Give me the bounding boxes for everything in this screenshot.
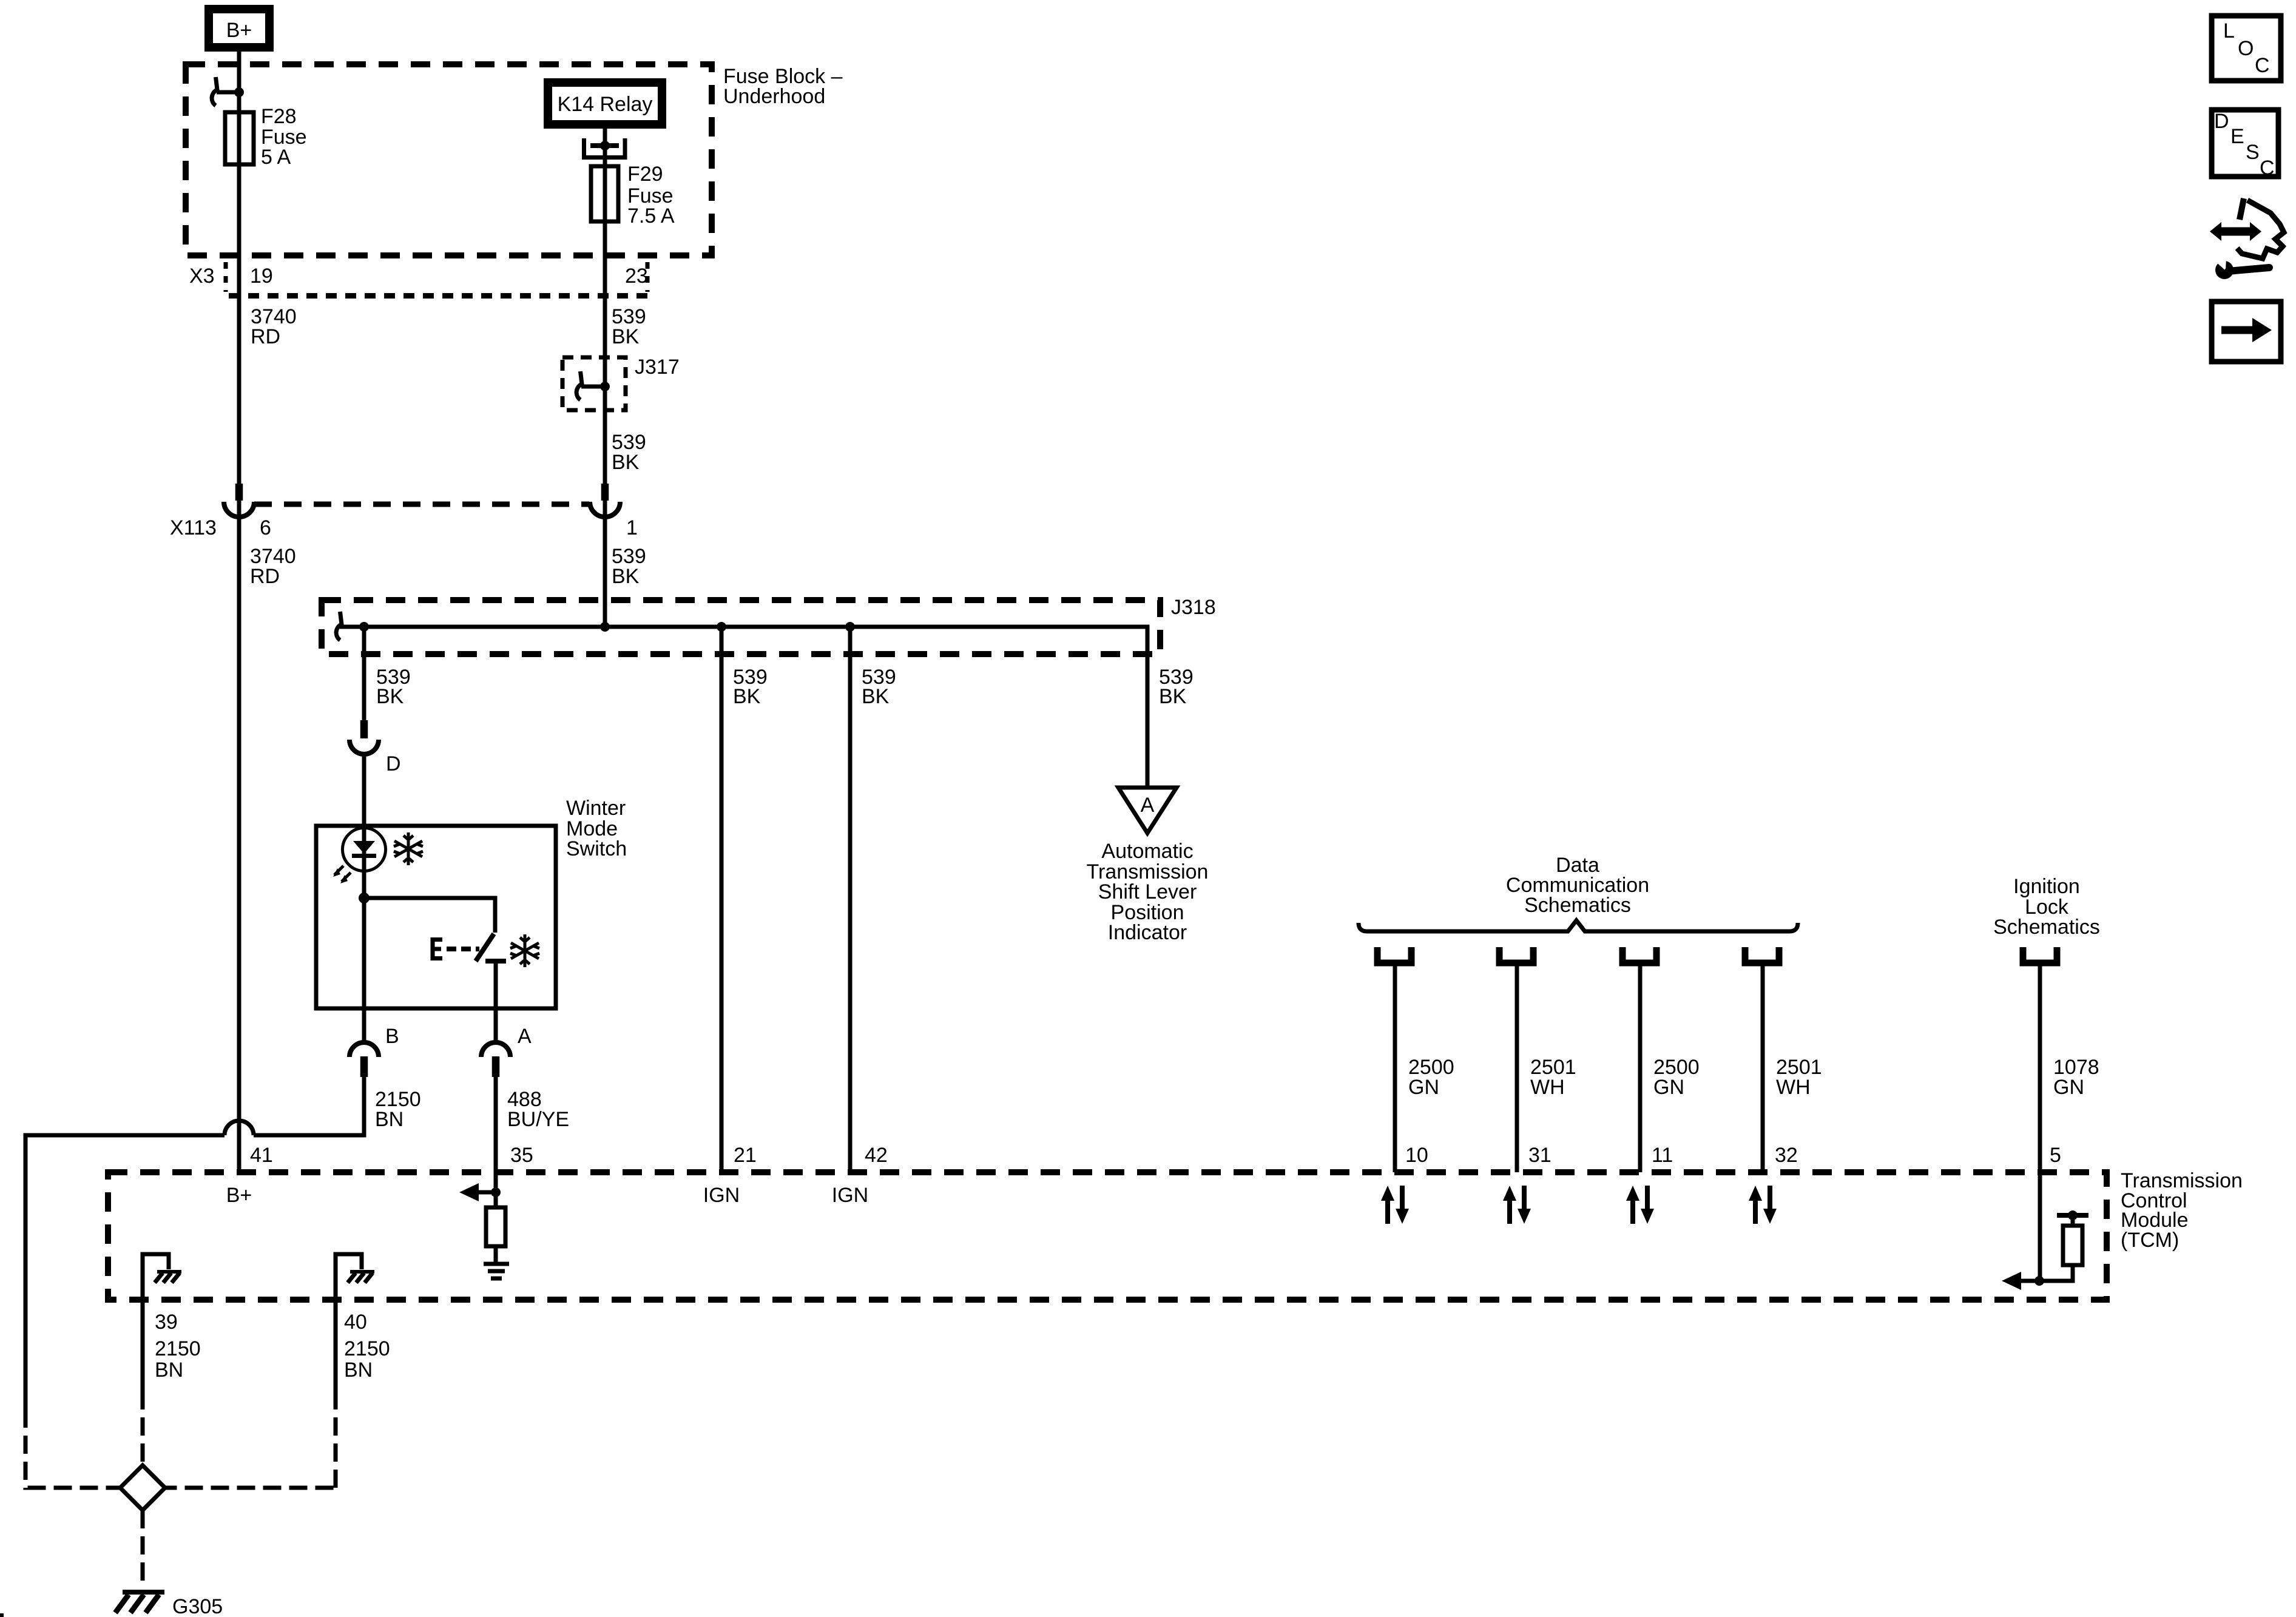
svg-text:21: 21 bbox=[734, 1144, 757, 1167]
svg-text:40: 40 bbox=[344, 1311, 367, 1334]
svg-text:Switch: Switch bbox=[566, 837, 627, 860]
svg-text:Underhood: Underhood bbox=[723, 85, 825, 108]
svg-text:19: 19 bbox=[250, 265, 273, 288]
svg-text:G305: G305 bbox=[172, 1595, 223, 1617]
svg-text:WH: WH bbox=[1530, 1076, 1565, 1099]
svg-text:BN: BN bbox=[155, 1359, 183, 1382]
svg-text:GN: GN bbox=[1653, 1076, 1684, 1099]
svg-text:Schematics: Schematics bbox=[1524, 894, 1631, 917]
svg-text:10: 10 bbox=[1405, 1144, 1428, 1167]
svg-text:2150: 2150 bbox=[344, 1337, 390, 1360]
svg-text:X3: X3 bbox=[189, 265, 215, 288]
svg-text:Winter: Winter bbox=[566, 797, 626, 820]
svg-text:A: A bbox=[518, 1025, 532, 1048]
svg-text:BN: BN bbox=[344, 1359, 373, 1382]
svg-text:Indicator: Indicator bbox=[1108, 921, 1187, 944]
svg-text:1: 1 bbox=[626, 516, 638, 539]
svg-text:GN: GN bbox=[2053, 1076, 2084, 1099]
svg-text:Shift Lever: Shift Lever bbox=[1098, 880, 1197, 903]
svg-text:11: 11 bbox=[1652, 1144, 1673, 1167]
svg-text:31: 31 bbox=[1528, 1144, 1551, 1167]
svg-text:GN: GN bbox=[1408, 1076, 1439, 1099]
svg-text:42: 42 bbox=[865, 1144, 888, 1167]
svg-text:23: 23 bbox=[625, 265, 648, 288]
svg-text:F29: F29 bbox=[627, 163, 663, 186]
svg-text:BU/YE: BU/YE bbox=[507, 1108, 569, 1131]
svg-text:D: D bbox=[2214, 110, 2229, 133]
svg-text:WH: WH bbox=[1776, 1076, 1811, 1099]
svg-text:5: 5 bbox=[2050, 1144, 2061, 1167]
svg-text:BK: BK bbox=[376, 685, 404, 708]
svg-text:35: 35 bbox=[510, 1144, 533, 1167]
svg-text:5 A: 5 A bbox=[261, 146, 291, 169]
svg-text:F28: F28 bbox=[261, 105, 297, 128]
svg-text:BK: BK bbox=[733, 685, 761, 708]
svg-text:BN: BN bbox=[375, 1108, 403, 1131]
svg-text:B+: B+ bbox=[226, 1184, 252, 1207]
svg-text:BK: BK bbox=[612, 451, 640, 474]
svg-text:C: C bbox=[2260, 157, 2275, 180]
svg-text:IGN: IGN bbox=[703, 1184, 740, 1207]
svg-text:S: S bbox=[2246, 141, 2260, 164]
svg-text:Automatic: Automatic bbox=[1101, 840, 1193, 863]
svg-text:RD: RD bbox=[250, 565, 280, 588]
svg-text:BK: BK bbox=[612, 325, 640, 348]
svg-text:Schematics: Schematics bbox=[1993, 916, 2100, 939]
svg-text:B+: B+ bbox=[226, 19, 252, 42]
svg-text:RD: RD bbox=[251, 325, 280, 348]
svg-text:O: O bbox=[2238, 37, 2254, 60]
svg-text:6: 6 bbox=[260, 516, 271, 539]
svg-text:(TCM): (TCM) bbox=[2121, 1229, 2179, 1252]
svg-text:BK: BK bbox=[862, 685, 890, 708]
svg-text:Ignition: Ignition bbox=[2013, 875, 2080, 898]
svg-text:L: L bbox=[2223, 19, 2235, 42]
svg-text:X113: X113 bbox=[170, 516, 217, 539]
svg-text:7.5 A: 7.5 A bbox=[627, 204, 675, 228]
svg-text:B: B bbox=[385, 1025, 399, 1048]
svg-text:BK: BK bbox=[1159, 685, 1187, 708]
svg-text:IGN: IGN bbox=[832, 1184, 868, 1207]
svg-text:J317: J317 bbox=[635, 356, 680, 379]
svg-text:BK: BK bbox=[612, 565, 640, 588]
svg-text:C: C bbox=[2255, 54, 2270, 77]
svg-text:39: 39 bbox=[155, 1311, 178, 1334]
svg-text:2150: 2150 bbox=[155, 1337, 201, 1360]
svg-text:D: D bbox=[386, 752, 401, 775]
svg-text:41: 41 bbox=[250, 1144, 273, 1167]
svg-text:E: E bbox=[2230, 125, 2244, 148]
svg-text:K14 Relay: K14 Relay bbox=[558, 93, 653, 116]
svg-text:32: 32 bbox=[1775, 1144, 1798, 1167]
svg-text:J318: J318 bbox=[1171, 596, 1216, 619]
svg-text:A: A bbox=[1141, 794, 1155, 817]
